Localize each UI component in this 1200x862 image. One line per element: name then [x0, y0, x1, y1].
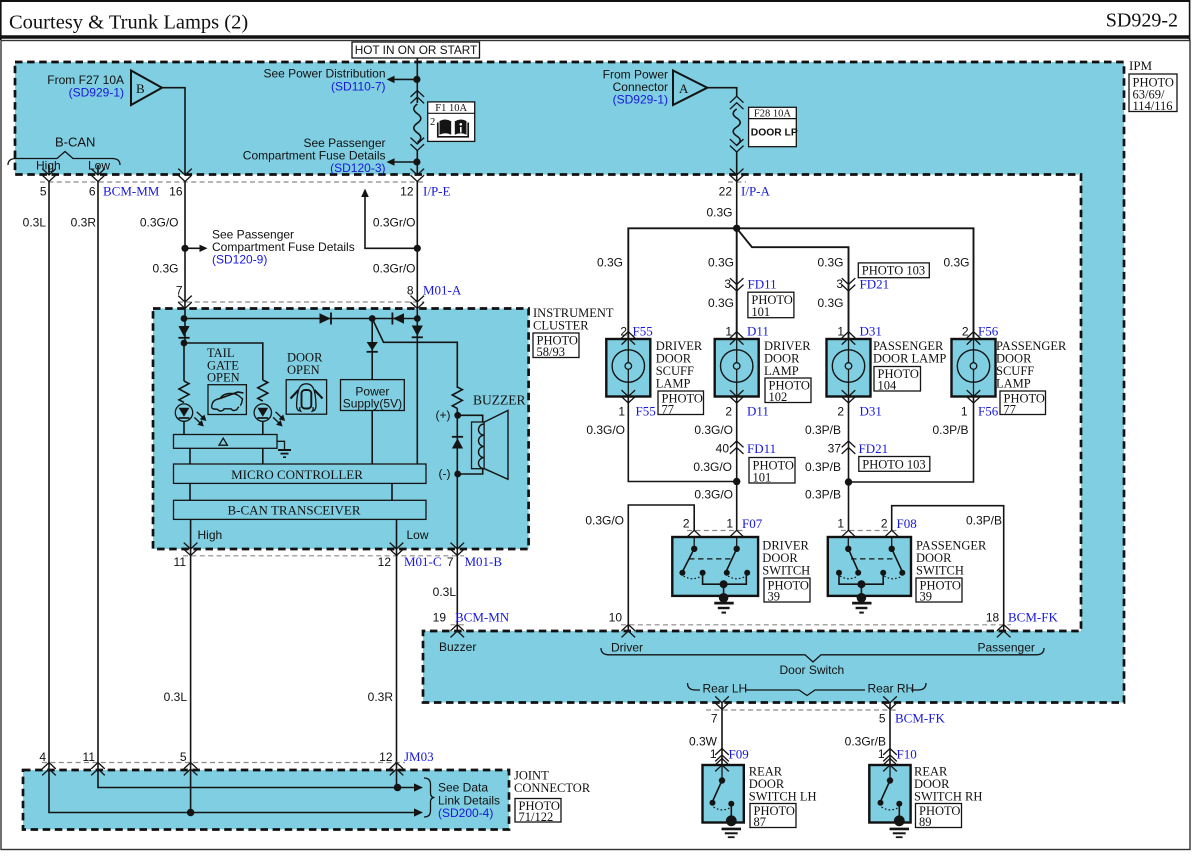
- junction dot plus: [454, 412, 461, 419]
- svg-text:BUZZER: BUZZER: [473, 393, 526, 408]
- wire F56 lamp to FD21 junction: [849, 397, 974, 483]
- connector chevrons pin 12 I/P-E: [411, 169, 425, 182]
- svg-text:BCM-MN: BCM-MN: [455, 610, 510, 625]
- svg-text:89: 89: [919, 815, 932, 829]
- gray connector line BCM-FK row: [621, 624, 1011, 626]
- LED tail gate: [175, 404, 192, 421]
- travel arcs dotted: [684, 576, 702, 579]
- svg-text:LAMP: LAMP: [656, 377, 691, 391]
- svg-text:5: 5: [180, 750, 187, 764]
- photo box 39: [916, 578, 962, 604]
- rear door switch RH box: [869, 759, 910, 823]
- wire MC to BCT right: [391, 483, 393, 500]
- diagonal + wire to D31 branch: [737, 228, 849, 339]
- svg-text:0.3G/O: 0.3G/O: [694, 423, 733, 437]
- svg-text:87: 87: [754, 815, 767, 829]
- junction dot center bus: [369, 315, 376, 322]
- svg-text:(+): (+): [436, 408, 451, 422]
- svg-text:High: High: [36, 159, 61, 173]
- svg-text:SWITCH RH: SWITCH RH: [914, 790, 982, 804]
- fuse F1 box: [428, 102, 475, 141]
- svg-text:MICRO CONTROLLER: MICRO CONTROLLER: [231, 467, 363, 482]
- svg-text:D11: D11: [747, 324, 769, 339]
- svg-text:19: 19: [433, 611, 447, 625]
- joint connector box: [23, 770, 509, 830]
- svg-text:7: 7: [447, 555, 454, 569]
- svg-text:0.3P/B: 0.3P/B: [966, 514, 1002, 528]
- svg-text:12: 12: [379, 750, 393, 764]
- wire 0.3L buzzer to BCM-MN: [456, 549, 458, 631]
- svg-text:0.3R: 0.3R: [368, 690, 394, 704]
- connector chevrons below fuse F1: [411, 138, 425, 151]
- wire 0.3G/O from BCM-MM 16 to cluster pin 7: [184, 182, 186, 309]
- wire 0.3L from BCM-MM 5: [48, 182, 50, 763]
- diode down on tail-gate chain: [178, 326, 189, 338]
- svg-text:I/P-A: I/P-A: [741, 184, 771, 199]
- gray connector line M01 bottom row: [183, 555, 464, 557]
- svg-text:(SD120-3): (SD120-3): [330, 161, 385, 175]
- door open icon: [286, 380, 326, 415]
- module chevrons pin 18: [997, 625, 1011, 638]
- svg-text:0.3R: 0.3R: [71, 216, 97, 230]
- svg-text:D31: D31: [860, 324, 882, 339]
- svg-text:Low: Low: [88, 159, 110, 173]
- svg-text:(SD929-1): (SD929-1): [613, 93, 668, 107]
- wire 0.3R Low to JM03: [396, 549, 398, 763]
- svg-text:LAMP: LAMP: [764, 364, 799, 378]
- photo box 101: [749, 458, 795, 485]
- svg-text:BCM-FK: BCM-FK: [1008, 610, 1058, 625]
- svg-text:JM03: JM03: [404, 749, 434, 764]
- svg-text:11: 11: [83, 750, 96, 764]
- svg-text:F55: F55: [636, 404, 656, 419]
- mechanical link dashed: [689, 558, 734, 560]
- svg-text:1: 1: [878, 747, 885, 761]
- svg-text:High: High: [198, 528, 223, 542]
- chevrons F07 pin 2: [687, 530, 701, 543]
- svg-text:Door Switch: Door Switch: [780, 663, 845, 677]
- fuse F28 wavy element: [733, 109, 740, 145]
- gray connector line M01-A row: [178, 301, 424, 303]
- junction dot FD21 branch: [845, 478, 852, 485]
- photo box 103: [859, 457, 930, 472]
- svg-text:22: 22: [719, 185, 733, 199]
- book icon: [440, 119, 452, 134]
- wire buzzer main down: [456, 408, 458, 549]
- svg-text:12: 12: [378, 555, 392, 569]
- svg-text:B-CAN: B-CAN: [55, 135, 95, 150]
- svg-text:CLUSTER: CLUSTER: [533, 319, 589, 333]
- photo box 77: [1000, 391, 1046, 417]
- svg-text:0.3G/O: 0.3G/O: [693, 460, 732, 474]
- fuse F28 box: [749, 107, 798, 146]
- svg-text:FD21: FD21: [859, 441, 889, 456]
- svg-text:77: 77: [662, 403, 675, 417]
- B-CAN Low stub wire: [97, 165, 99, 175]
- photo box 87: [750, 804, 796, 830]
- connector chevrons above fuse F1: [411, 91, 425, 104]
- junction dot tail-gate chain: [181, 340, 188, 347]
- svg-text:0.3G: 0.3G: [708, 256, 734, 270]
- chevrons JM03 pin 5: [184, 763, 198, 776]
- gray connector line F08: [841, 530, 899, 532]
- module chevrons pin 10: [622, 625, 636, 638]
- joint connector bus A wire: [98, 763, 415, 788]
- svg-text:12: 12: [400, 185, 414, 199]
- svg-text:IPM: IPM: [1129, 58, 1153, 73]
- svg-text:DOOR LP: DOOR LP: [751, 128, 798, 139]
- svg-text:F56: F56: [978, 404, 999, 419]
- photo box 71/122: [515, 799, 561, 825]
- module chevrons pin 19: [451, 625, 465, 638]
- power supply box: [341, 380, 405, 411]
- wire 0.3W to F09: [721, 703, 723, 765]
- svg-text:M01-C: M01-C: [404, 554, 442, 569]
- svg-text:71/122: 71/122: [519, 810, 554, 824]
- cluster: wire pin7 entry down to bus: [184, 308, 186, 343]
- svg-text:2: 2: [725, 405, 732, 419]
- brace Rear LH / Rear RH: [688, 683, 927, 696]
- svg-text:0.3L: 0.3L: [433, 585, 457, 599]
- wire F55 lamp to FD11 junction: [628, 397, 736, 482]
- svg-text:0.3L: 0.3L: [164, 690, 188, 704]
- svg-text:0.3P/B: 0.3P/B: [805, 460, 841, 474]
- IPM photo box: [1129, 74, 1177, 113]
- photo box 103: [858, 263, 929, 278]
- photo box 77: [658, 391, 704, 417]
- wire: arrow to See Power Distribution: [394, 78, 417, 80]
- diagonal wire from center dot to buzzer line: [372, 319, 457, 389]
- wire below fuse F1: [416, 151, 418, 175]
- svg-text:1: 1: [961, 405, 968, 419]
- contact dots: [679, 570, 685, 576]
- cluster chevrons pin 11: [184, 543, 198, 556]
- svg-text:Rear RH: Rear RH: [868, 682, 915, 696]
- wire from triangle A to fuse F28: [707, 88, 736, 97]
- wire center dot down through diode to power supply: [371, 319, 373, 380]
- svg-text:Courtesy & Trunk Lamps (2): Courtesy & Trunk Lamps (2): [9, 12, 248, 34]
- tail gate car icon: [208, 385, 246, 415]
- svg-text:Driver: Driver: [611, 641, 643, 655]
- svg-text:0.3Gr/O: 0.3Gr/O: [373, 216, 416, 230]
- svg-text:104: 104: [878, 379, 898, 393]
- ground rear door switch LH: [722, 815, 742, 837]
- photo box 89: [916, 804, 962, 830]
- B-CAN TRANSCEIVER box: [174, 500, 427, 519]
- switch blades: [683, 549, 694, 571]
- chevrons JM03 pin 4: [42, 763, 56, 776]
- lamp F55 driver door scuff lamp: [606, 332, 650, 403]
- junction dot SD120-9: [181, 245, 188, 252]
- switch pole pivot dots: [691, 546, 697, 552]
- wire F08 pin2 to BCM-FK 18: [892, 506, 1004, 631]
- junction dot minus: [454, 471, 461, 478]
- junction dot FD11 branch: [733, 478, 740, 485]
- connector FD11 pin 40 chevrons: [730, 441, 744, 454]
- buzzer coil feed bottom: [458, 469, 483, 474]
- passenger door switch box: [828, 537, 911, 596]
- svg-text:SD929-2: SD929-2: [1106, 10, 1178, 32]
- ground (plate): [277, 441, 291, 457]
- svg-text:0.3G/O: 0.3G/O: [694, 488, 733, 502]
- switch common bus: [703, 573, 747, 585]
- svg-text:0.3G: 0.3G: [706, 206, 732, 220]
- svg-text:M01-B: M01-B: [465, 554, 503, 569]
- svg-text:7: 7: [711, 712, 718, 726]
- svg-text:(SD200-4): (SD200-4): [438, 806, 493, 820]
- svg-text:SWITCH LH: SWITCH LH: [749, 790, 817, 804]
- cluster chevrons pin 7 M01-B: [451, 543, 465, 556]
- wire D11 lamp down to F07 pin1: [736, 397, 738, 531]
- wire to D11 branch: [736, 228, 738, 339]
- svg-text:FD21: FD21: [860, 277, 890, 292]
- svg-text:0.3G: 0.3G: [152, 262, 178, 276]
- cluster: wire pin8 entry down: [416, 308, 418, 337]
- svg-text:2: 2: [881, 517, 888, 531]
- svg-text:(-): (-): [439, 467, 451, 481]
- wire BCT High down: [190, 519, 192, 549]
- svg-text:BCM-FK: BCM-FK: [895, 711, 945, 726]
- svg-text:Supply(5V): Supply(5V): [343, 397, 402, 411]
- label Rear RH: [865, 681, 914, 696]
- HOT IN ON OR START box: [352, 42, 480, 58]
- brace Driver-Passenger: [601, 648, 1044, 662]
- photo box 104: [874, 367, 921, 393]
- svg-text:B-CAN TRANSCEIVER: B-CAN TRANSCEIVER: [227, 503, 360, 518]
- svg-text:10: 10: [609, 611, 623, 625]
- junction dot distribution: [733, 225, 740, 232]
- resistor door-open chain: [258, 380, 268, 401]
- svg-text:SWITCH: SWITCH: [762, 564, 810, 578]
- label Rear LH: [700, 681, 747, 696]
- photo box 101: [748, 292, 794, 319]
- wire F07 pin2 to BCM-FK 10: [628, 505, 694, 631]
- chevrons F08 pin 2: [885, 530, 899, 543]
- driver door switch box: [672, 537, 758, 596]
- cluster chevrons pin 7: [178, 296, 192, 309]
- svg-text:0.3G/O: 0.3G/O: [140, 216, 179, 230]
- joint connector bus B wire: [49, 763, 415, 813]
- connector chevrons pin 16: [178, 169, 192, 182]
- junction dot: [414, 245, 421, 252]
- svg-text:2: 2: [430, 117, 435, 128]
- svg-text:2: 2: [837, 405, 844, 419]
- svg-text:1: 1: [618, 405, 625, 419]
- svg-text:OPEN: OPEN: [207, 371, 240, 385]
- wire I/P-A feed down: [736, 176, 738, 228]
- svg-text:5: 5: [40, 185, 47, 199]
- wire 0.3L High to JM03: [190, 549, 192, 763]
- svg-text:1: 1: [710, 747, 717, 761]
- wire 0.3Gr/B to F10: [889, 703, 891, 765]
- gray connector line rear BCM-FK: [706, 709, 897, 711]
- svg-text:0.3G: 0.3G: [817, 296, 843, 310]
- svg-text:F10: F10: [897, 747, 917, 762]
- junction dot SD120-3: [413, 158, 420, 165]
- svg-text:18: 18: [986, 611, 1000, 625]
- svg-text:Low: Low: [407, 528, 429, 542]
- photo box 39: [764, 578, 810, 604]
- wire D31 lamp down to F08 pin1: [848, 397, 850, 531]
- wire arrow to See Passenger Compartment Fuse Details: [394, 161, 417, 163]
- svg-text:SWITCH: SWITCH: [916, 564, 964, 578]
- connector FD11 pin 3 chevrons: [730, 278, 744, 291]
- svg-text:LAMP: LAMP: [996, 377, 1031, 391]
- ground driver door switch: [714, 593, 733, 613]
- wire tail-gate chain down: [183, 343, 185, 381]
- svg-text:0.3G/O: 0.3G/O: [586, 423, 625, 437]
- LED light arrows: [194, 412, 206, 427]
- svg-text:114/116: 114/116: [1133, 99, 1173, 113]
- svg-text:0.3G: 0.3G: [817, 256, 843, 270]
- wire BCT Low down: [396, 519, 398, 549]
- B-CAN brace: [8, 152, 120, 166]
- cluster top bus wire: [184, 318, 417, 320]
- wire plate to micro controller left: [189, 448, 191, 464]
- svg-text:6: 6: [89, 185, 96, 199]
- svg-text:1: 1: [726, 517, 733, 531]
- chevrons JM03 pin 12: [390, 763, 404, 776]
- diode down on M01-A chain: [412, 326, 423, 338]
- svg-text:39: 39: [920, 590, 933, 604]
- svg-text:0.3P/B: 0.3P/B: [932, 423, 968, 437]
- chevrons rear pin 7: [715, 696, 729, 709]
- rear door switch LH box: [703, 759, 744, 823]
- chevrons F08 pin 1: [842, 530, 856, 543]
- connector F10 chevrons: [883, 749, 897, 762]
- svg-text:37: 37: [828, 442, 842, 456]
- buzzer coil feed top: [458, 415, 483, 422]
- wire MC to BCT left: [189, 483, 191, 500]
- svg-text:D31: D31: [860, 404, 882, 419]
- svg-text:0.3Gr/O: 0.3Gr/O: [373, 262, 416, 276]
- brace see data link: [424, 778, 435, 817]
- svg-text:0.3L: 0.3L: [23, 216, 47, 230]
- svg-text:BCM-MM: BCM-MM: [103, 184, 160, 199]
- svg-text:F56: F56: [978, 324, 999, 339]
- svg-text:F09: F09: [729, 747, 749, 762]
- svg-text:Buzzer: Buzzer: [439, 640, 476, 654]
- chevrons F07 pin 1: [730, 530, 744, 543]
- svg-text:A: A: [679, 81, 689, 96]
- cluster chevrons pin 12 M01-C: [390, 543, 404, 556]
- svg-text:HOT IN ON OR START: HOT IN ON OR START: [355, 43, 478, 57]
- svg-text:Passenger: Passenger: [978, 641, 1035, 655]
- gray connector line JM03 row: [42, 762, 405, 764]
- junction dot left bus: [181, 315, 188, 322]
- diode on bus pointing right: [320, 313, 332, 325]
- svg-text:F1 10A: F1 10A: [435, 103, 467, 114]
- svg-text:11: 11: [174, 555, 187, 569]
- svg-text:2: 2: [683, 517, 690, 531]
- svg-text:0.3G/O: 0.3G/O: [585, 514, 624, 528]
- B-CAN High stub wire: [48, 165, 50, 175]
- svg-text:PHOTO 103: PHOTO 103: [862, 264, 925, 278]
- svg-text:F28 10A: F28 10A: [754, 108, 791, 119]
- IPM module shape (cyan): [15, 62, 1124, 703]
- svg-text:1: 1: [837, 517, 844, 531]
- svg-text:See Data: See Data: [438, 781, 488, 795]
- diode up on buzzer wire: [452, 437, 463, 449]
- svg-text:101: 101: [753, 471, 772, 485]
- diode down above power supply: [367, 342, 378, 352]
- chevrons rear pin 5: [883, 696, 897, 709]
- svg-text:I/P-E: I/P-E: [423, 184, 451, 199]
- svg-text:B: B: [136, 81, 145, 96]
- connector chevrons above fuse F28: [730, 96, 744, 109]
- svg-text:Rear LH: Rear LH: [703, 682, 748, 696]
- buzzer coil and horn: [472, 410, 509, 479]
- lamp D11 driver door lamp: [715, 332, 759, 403]
- MICRO CONTROLLER box: [174, 464, 427, 483]
- gray connector line BCM-MM / I/P-E: [40, 181, 424, 183]
- svg-text:0.3G: 0.3G: [597, 256, 623, 270]
- wire power supply to micro controller: [371, 411, 373, 465]
- diode on bus pointing left: [392, 313, 404, 325]
- gray connector line F07: [687, 530, 744, 532]
- connector chevrons pin 22 I/P-A: [730, 169, 744, 182]
- connector chevrons below fuse F28: [730, 139, 744, 152]
- connector F09 chevrons: [715, 749, 729, 762]
- junction dot right bus: [414, 315, 421, 322]
- svg-text:FD11: FD11: [748, 277, 777, 292]
- junction dot bus A: [394, 784, 402, 792]
- lamp distribution bus: [628, 228, 973, 339]
- gray connector line I/P-A: [728, 181, 746, 183]
- svg-text:D11: D11: [747, 404, 769, 419]
- svg-text:OPEN: OPEN: [287, 363, 320, 377]
- svg-text:101: 101: [751, 305, 770, 319]
- svg-text:102: 102: [769, 390, 788, 404]
- wire LED to plate: [183, 421, 185, 434]
- svg-text:5: 5: [879, 712, 886, 726]
- wire 0.3Gr/O from I/P-E 12 to cluster pin 8: [416, 182, 418, 309]
- buzzer resistor: [452, 387, 462, 408]
- lamp D31 passenger door lamp: [827, 332, 871, 403]
- svg-text:(SD929-1): (SD929-1): [69, 86, 124, 100]
- wire M01-A diode to micro controller: [416, 337, 418, 464]
- svg-text:See Power Distribution: See Power Distribution: [263, 67, 385, 81]
- sensor plate bar: [174, 435, 278, 449]
- connector FD21 pin 3 chevrons: [842, 278, 856, 291]
- instrument cluster box: [153, 309, 529, 550]
- svg-text:FD11: FD11: [747, 441, 776, 456]
- svg-text:4: 4: [39, 750, 46, 764]
- svg-text:0.3G: 0.3G: [708, 296, 734, 310]
- svg-text:F07: F07: [742, 516, 763, 531]
- photo box 58/93: [533, 333, 579, 359]
- wire from triangle B to pin 16: [162, 88, 185, 175]
- svg-text:PHOTO 103: PHOTO 103: [862, 457, 925, 471]
- junction dot bus B: [187, 809, 195, 817]
- svg-text:8: 8: [407, 284, 414, 298]
- svg-text:7: 7: [176, 284, 183, 298]
- wire plate to micro controller right: [262, 448, 264, 464]
- svg-text:0.3P/B: 0.3P/B: [805, 423, 841, 437]
- ground passenger door switch: [852, 593, 871, 613]
- svg-text:58/93: 58/93: [537, 345, 565, 359]
- svg-text:16: 16: [169, 185, 183, 199]
- svg-text:0.3G: 0.3G: [943, 256, 969, 270]
- lamp F56 passenger door scuff lamp: [952, 332, 996, 403]
- junction dot: [413, 76, 420, 83]
- wire LED to plate: [262, 421, 264, 434]
- svg-text:3: 3: [836, 277, 843, 291]
- triangle connector A: [673, 71, 707, 106]
- cluster chevrons pin 8: [411, 296, 425, 309]
- arrow to See Passenger Compartment Fuse Details SD120-9: [185, 247, 200, 249]
- wire branch with up arrow to fuse details: [365, 196, 417, 248]
